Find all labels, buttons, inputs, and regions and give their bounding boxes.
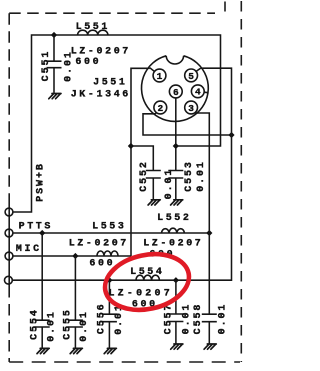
wire PSW+B net: terminal to L551 to pin6 feed	[13, 35, 221, 212]
junction dot PTTS/C554 branch	[39, 230, 45, 236]
svg-text:PTTS: PTTS	[19, 221, 53, 232]
capacitor C555	[68, 256, 83, 348]
pin 5 (J551)	[185, 68, 201, 82]
junction dot pin2/pin5	[228, 132, 234, 138]
wire pin1 to MIC line	[131, 68, 150, 256]
wire PTTS line	[13, 232, 209, 234]
svg-text:0.01: 0.01	[196, 160, 207, 192]
svg-text:0.01: 0.01	[164, 168, 175, 200]
svg-text:1: 1	[157, 71, 163, 82]
capacitor C554	[35, 233, 50, 348]
ground (C551)	[49, 94, 61, 99]
svg-text:LZ-0207: LZ-0207	[69, 238, 129, 249]
node MIC terminal	[5, 252, 13, 260]
inductor L551	[78, 30, 108, 35]
svg-text:LZ-0207: LZ-0207	[108, 289, 172, 300]
connector J551 outer shell with keyway notch	[141, 56, 208, 122]
svg-text:0.01: 0.01	[217, 303, 228, 335]
node AF terminal (unlabeled)	[4, 276, 12, 284]
capacitor C553	[168, 171, 183, 200]
ground (C553)	[171, 200, 183, 205]
ground (C554)	[37, 348, 49, 353]
junction dot PTTS/pin3	[206, 230, 212, 236]
svg-text:6: 6	[173, 87, 179, 98]
svg-text:JK-1346: JK-1346	[71, 90, 131, 101]
wire pin6 down to C553	[175, 98, 177, 171]
junction dot pin6/feed	[173, 143, 179, 149]
junction dot pin1/C552 branch	[128, 143, 134, 149]
wire pin5 down right side to L554 line	[12, 68, 231, 280]
svg-text:L553: L553	[92, 222, 126, 233]
svg-text:J551: J551	[93, 78, 127, 89]
capacitor C557	[168, 280, 183, 344]
ground (C552)	[148, 200, 160, 205]
svg-text:600: 600	[89, 258, 115, 269]
capacitor C556	[102, 280, 117, 348]
dashed boundary frame (decorative)	[9, 1, 241, 362]
svg-text:3: 3	[188, 103, 194, 114]
svg-text:MIC: MIC	[16, 244, 42, 255]
svg-text:L554: L554	[130, 267, 164, 278]
junction dot L554 left / C556 branch	[106, 277, 112, 283]
inductor L553	[97, 251, 118, 256]
capacitor C552	[146, 171, 161, 200]
pin 3 (J551)	[185, 101, 198, 114]
wire C552 branch	[131, 146, 153, 171]
node PTTS terminal	[5, 229, 13, 237]
red highlight ellipse around L554	[100, 247, 194, 317]
wire MIC line	[13, 255, 131, 257]
inductor L552	[162, 228, 185, 233]
ground (C557)	[171, 344, 183, 349]
pin 4 (J551)	[191, 85, 207, 98]
svg-text:C557: C557	[163, 303, 174, 335]
svg-text:2: 2	[157, 103, 163, 114]
svg-text:C554: C554	[30, 308, 41, 340]
svg-text:PSW+B: PSW+B	[36, 162, 47, 202]
wire pin2 to pin5 vertical	[143, 114, 232, 135]
svg-text:C556: C556	[97, 302, 108, 334]
svg-text:L551: L551	[76, 22, 110, 33]
capacitor C558	[202, 314, 217, 344]
svg-text:0.01: 0.01	[182, 303, 193, 335]
junction dot MIC/C555 branch	[72, 253, 78, 259]
svg-text:LZ-0207: LZ-0207	[71, 46, 131, 57]
ground (C558)	[204, 344, 216, 349]
capacitor C551	[47, 35, 62, 93]
svg-text:5: 5	[188, 71, 194, 82]
wire pin3 down to C558	[196, 113, 210, 314]
ground (C555)	[70, 348, 82, 353]
svg-text:C558: C558	[193, 303, 204, 335]
svg-text:0.01: 0.01	[47, 310, 58, 342]
svg-text:4: 4	[195, 87, 201, 98]
svg-text:600: 600	[75, 57, 101, 68]
node PSW+B terminal	[5, 208, 13, 216]
svg-text:0.01: 0.01	[79, 310, 90, 342]
pin 1 (J551)	[150, 68, 166, 82]
svg-text:C551: C551	[41, 50, 52, 82]
inductor L554	[136, 275, 159, 280]
pin 2 (J551)	[154, 101, 167, 114]
svg-text:C555: C555	[63, 308, 74, 340]
svg-text:0.01: 0.01	[63, 50, 74, 82]
junction dot at C551 tap	[51, 32, 57, 38]
svg-text:L552: L552	[157, 213, 191, 224]
junction dot L554 right / C557 branch	[173, 277, 179, 283]
svg-text:C553: C553	[184, 160, 195, 192]
pin 6 (J551)	[169, 85, 182, 98]
svg-text:LZ-0207: LZ-0207	[143, 238, 203, 249]
svg-text:C552: C552	[139, 160, 150, 192]
ground (C556)	[104, 348, 116, 353]
